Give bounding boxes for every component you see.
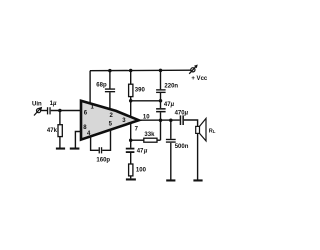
- wire 68p to pin 2: [109, 92, 111, 110]
- ground 500n: [166, 179, 175, 181]
- wire 500n to ground: [170, 143, 172, 180]
- terminal Uin: [34, 107, 42, 116]
- wire node to 47u lower: [130, 140, 132, 148]
- terminal +Vcc: [189, 65, 198, 74]
- resistor 390: [129, 84, 133, 96]
- node pin7/33k/47u: [129, 138, 133, 142]
- wire 1u to pin 6: [51, 110, 81, 112]
- wire 33k riser: [160, 120, 162, 140]
- wire output from op-amp: [139, 119, 180, 121]
- wire 33k right stub: [157, 139, 161, 141]
- svg-text:220n: 220n: [164, 83, 178, 89]
- wire pin 4 stub: [91, 137, 99, 151]
- wire 68p drop: [109, 71, 111, 89]
- capacitor C 47u upper: [156, 108, 166, 112]
- wire 100 to ground: [130, 176, 132, 179]
- ground 47k: [56, 148, 65, 150]
- wire top supply rail: [90, 69, 191, 72]
- wire Uin to 1u: [41, 110, 47, 112]
- capacitor 160p: [99, 147, 103, 153]
- wire 390 drop: [130, 71, 132, 85]
- capacitor 220n: [156, 89, 166, 93]
- op-amp U1 triangle: [81, 101, 139, 140]
- wire 33k left to pin7 node: [131, 139, 144, 141]
- ground speaker: [193, 179, 202, 181]
- wire 220n to node: [160, 93, 162, 101]
- wire 47u lower to 100: [130, 153, 132, 164]
- svg-text:390: 390: [135, 88, 146, 94]
- wire 47k to ground: [59, 137, 61, 148]
- wire 390 to pin 3: [130, 97, 132, 118]
- svg-text:100: 100: [136, 168, 147, 174]
- wire cross link 390 to 220n/47u: [131, 100, 161, 102]
- wire 220n drop: [160, 70, 162, 89]
- svg-text:47k: 47k: [47, 128, 58, 134]
- svg-text:500n: 500n: [175, 144, 189, 150]
- wire 47u to output: [160, 112, 162, 120]
- svg-text:47µ: 47µ: [137, 148, 148, 154]
- node output/500n: [169, 118, 173, 122]
- wire 470u to speaker: [184, 120, 198, 126]
- wire speaker to ground: [197, 133, 199, 179]
- svg-text:1µ: 1µ: [50, 101, 57, 107]
- wire pin 7 drop: [130, 123, 132, 140]
- wire node to 47u: [160, 101, 162, 108]
- capacitor 500n: [166, 139, 176, 143]
- node input/47k: [58, 109, 62, 113]
- node junction rail/220n: [159, 69, 163, 73]
- svg-text:470µ: 470µ: [175, 110, 189, 116]
- wire 500n drop: [170, 120, 172, 139]
- capacitor 68p: [105, 88, 115, 92]
- wire pin 5 stub: [102, 130, 110, 150]
- capacitor 47u lower: [126, 148, 135, 153]
- node 220n/47u junction: [159, 99, 163, 103]
- svg-text:10: 10: [143, 114, 150, 120]
- ground 100: [126, 178, 136, 180]
- svg-text:Uin: Uin: [32, 102, 42, 108]
- resistor 100: [129, 164, 133, 176]
- svg-text:RL: RL: [209, 128, 216, 134]
- wire node to 47k: [59, 111, 61, 125]
- resistor 33k: [144, 138, 157, 142]
- wire pin 8 stub to ground: [75, 132, 81, 148]
- node junction rail/390: [129, 69, 133, 73]
- node output/33k: [159, 118, 163, 122]
- ground pin 8: [70, 148, 80, 150]
- capacitor 1u: [47, 107, 51, 114]
- svg-text:68p: 68p: [96, 83, 107, 89]
- wire pin 1 drop from rail left corner: [89, 71, 91, 105]
- svg-text:160p: 160p: [96, 157, 110, 163]
- node junction rail/68p: [108, 69, 112, 73]
- node 390 bottom: [129, 99, 133, 103]
- svg-text:47µ: 47µ: [164, 102, 175, 108]
- svg-text:+ Vcc: + Vcc: [191, 76, 208, 82]
- resistor 47k: [58, 125, 62, 137]
- capacitor 470u: [180, 115, 184, 125]
- svg-text:33k: 33k: [144, 132, 155, 138]
- speaker RL: [196, 118, 206, 140]
